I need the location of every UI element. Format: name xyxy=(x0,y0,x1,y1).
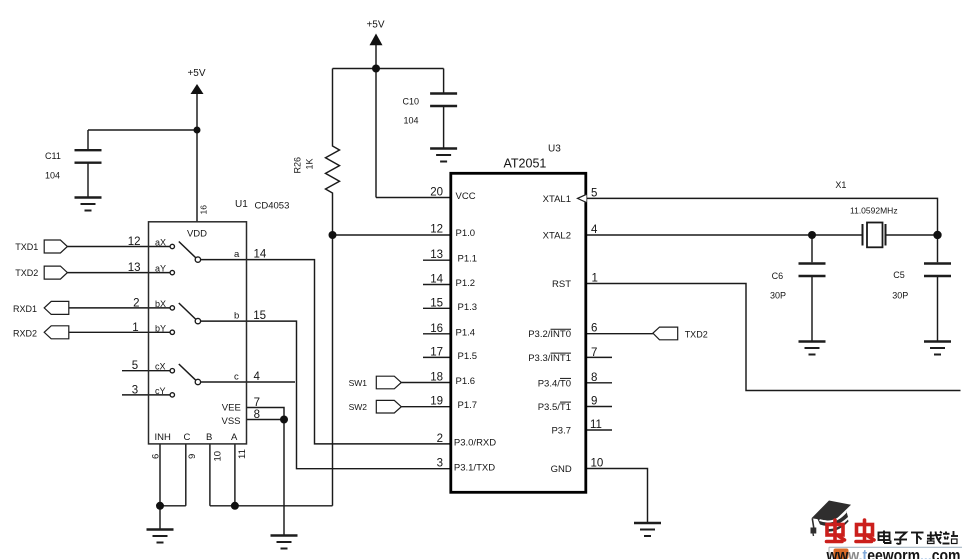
svg-text:19: 19 xyxy=(430,396,443,408)
svg-text:a: a xyxy=(234,249,240,260)
svg-text:1K: 1K xyxy=(305,158,315,169)
svg-text:2: 2 xyxy=(133,297,139,309)
svg-text:C6: C6 xyxy=(772,271,784,281)
svg-text:aX: aX xyxy=(155,238,166,248)
svg-text:C: C xyxy=(184,432,191,443)
svg-text:16: 16 xyxy=(430,323,443,335)
svg-text:P1.7: P1.7 xyxy=(458,400,478,411)
svg-text:12: 12 xyxy=(128,236,141,248)
svg-text:VEE: VEE xyxy=(222,403,241,414)
svg-text:C11: C11 xyxy=(45,151,61,161)
svg-text:cX: cX xyxy=(155,362,166,372)
svg-text:cY: cY xyxy=(155,386,166,396)
svg-text:P3.7: P3.7 xyxy=(551,426,571,437)
svg-text:TXD2: TXD2 xyxy=(685,330,708,340)
svg-text:9: 9 xyxy=(187,454,198,459)
svg-text:RXD1: RXD1 xyxy=(13,304,37,314)
svg-text:P1.0: P1.0 xyxy=(456,228,476,239)
svg-text:9: 9 xyxy=(591,396,597,408)
svg-text:C5: C5 xyxy=(893,270,905,280)
svg-text:XTAL2: XTAL2 xyxy=(543,231,571,242)
svg-text:8: 8 xyxy=(591,372,597,384)
svg-text:GND: GND xyxy=(551,464,572,475)
svg-text:6: 6 xyxy=(151,454,162,459)
svg-text:3: 3 xyxy=(437,458,443,470)
svg-text:AT2051: AT2051 xyxy=(504,157,547,171)
svg-text:20: 20 xyxy=(430,187,443,199)
svg-text:7: 7 xyxy=(254,397,260,409)
svg-text:15: 15 xyxy=(253,310,266,322)
svg-text:bX: bX xyxy=(155,299,166,309)
svg-text:X1: X1 xyxy=(835,180,846,190)
svg-text:1: 1 xyxy=(592,273,598,285)
svg-text:b: b xyxy=(234,311,239,322)
svg-text:TXD1: TXD1 xyxy=(15,242,38,252)
svg-text:P3.3/INT1: P3.3/INT1 xyxy=(528,353,571,364)
svg-text:VDD: VDD xyxy=(187,229,207,240)
svg-text:www.teeworm...com: www.teeworm...com xyxy=(826,547,961,559)
svg-text:P1.3: P1.3 xyxy=(458,302,478,313)
svg-text:13: 13 xyxy=(128,262,141,274)
svg-text:B: B xyxy=(206,432,212,443)
svg-text:P1.1: P1.1 xyxy=(458,254,478,265)
svg-text:c: c xyxy=(234,372,239,383)
svg-text:7: 7 xyxy=(591,347,597,359)
svg-text:INH: INH xyxy=(155,432,172,443)
svg-text:5: 5 xyxy=(132,360,138,372)
svg-text:+5V: +5V xyxy=(187,68,205,79)
svg-text:10: 10 xyxy=(213,451,224,462)
svg-text:aY: aY xyxy=(155,264,166,274)
svg-text:P3.4/T0: P3.4/T0 xyxy=(538,378,571,389)
svg-text:SW1: SW1 xyxy=(349,378,368,388)
svg-text:P3.0/RXD: P3.0/RXD xyxy=(454,438,496,449)
svg-text:12: 12 xyxy=(430,224,443,236)
svg-text:11.0592MHz: 11.0592MHz xyxy=(850,206,898,216)
svg-text:RST: RST xyxy=(552,279,571,290)
svg-text:11: 11 xyxy=(590,419,602,431)
svg-text:5: 5 xyxy=(591,187,597,199)
svg-text:14: 14 xyxy=(430,274,443,286)
svg-text:RXD2: RXD2 xyxy=(13,328,37,338)
svg-text:13: 13 xyxy=(430,249,443,261)
svg-text:P3.2/INT0: P3.2/INT0 xyxy=(528,329,571,340)
svg-text:30P: 30P xyxy=(892,291,908,301)
svg-text:104: 104 xyxy=(45,171,60,181)
svg-text:4: 4 xyxy=(254,371,261,383)
svg-text:C10: C10 xyxy=(403,97,420,107)
svg-text:17: 17 xyxy=(430,346,443,358)
svg-text:VCC: VCC xyxy=(456,191,476,202)
svg-text:P3.5/T1: P3.5/T1 xyxy=(538,402,571,413)
svg-text:18: 18 xyxy=(430,372,443,384)
svg-text:P1.4: P1.4 xyxy=(456,327,476,338)
svg-text:+5V: +5V xyxy=(366,20,384,31)
svg-text:U1: U1 xyxy=(235,199,248,210)
svg-text:CD4053: CD4053 xyxy=(255,201,290,212)
svg-text:16: 16 xyxy=(199,205,209,215)
svg-text:VSS: VSS xyxy=(222,416,241,427)
svg-text:4: 4 xyxy=(591,224,598,236)
svg-text:A: A xyxy=(231,432,238,443)
svg-text:P3.1/TXD: P3.1/TXD xyxy=(454,463,495,474)
svg-text:R26: R26 xyxy=(293,157,303,174)
svg-text:SW2: SW2 xyxy=(349,402,368,412)
svg-text:6: 6 xyxy=(591,323,597,335)
svg-text:TXD2: TXD2 xyxy=(15,268,38,278)
svg-text:30P: 30P xyxy=(770,291,786,301)
svg-text:U3: U3 xyxy=(548,144,561,155)
svg-text:14: 14 xyxy=(254,249,267,261)
svg-text:P1.2: P1.2 xyxy=(456,278,476,289)
svg-text:XTAL1: XTAL1 xyxy=(543,194,571,205)
svg-text:10: 10 xyxy=(591,458,604,470)
svg-text:1: 1 xyxy=(132,322,138,334)
svg-text:P1.6: P1.6 xyxy=(456,376,476,387)
svg-text:8: 8 xyxy=(254,409,260,421)
svg-text:104: 104 xyxy=(404,116,419,126)
svg-text:P1.5: P1.5 xyxy=(458,351,478,362)
svg-text:bY: bY xyxy=(155,323,166,333)
svg-text:15: 15 xyxy=(430,297,443,309)
svg-text:3: 3 xyxy=(132,384,138,396)
svg-text:11: 11 xyxy=(237,449,248,459)
svg-text:2: 2 xyxy=(437,433,443,445)
